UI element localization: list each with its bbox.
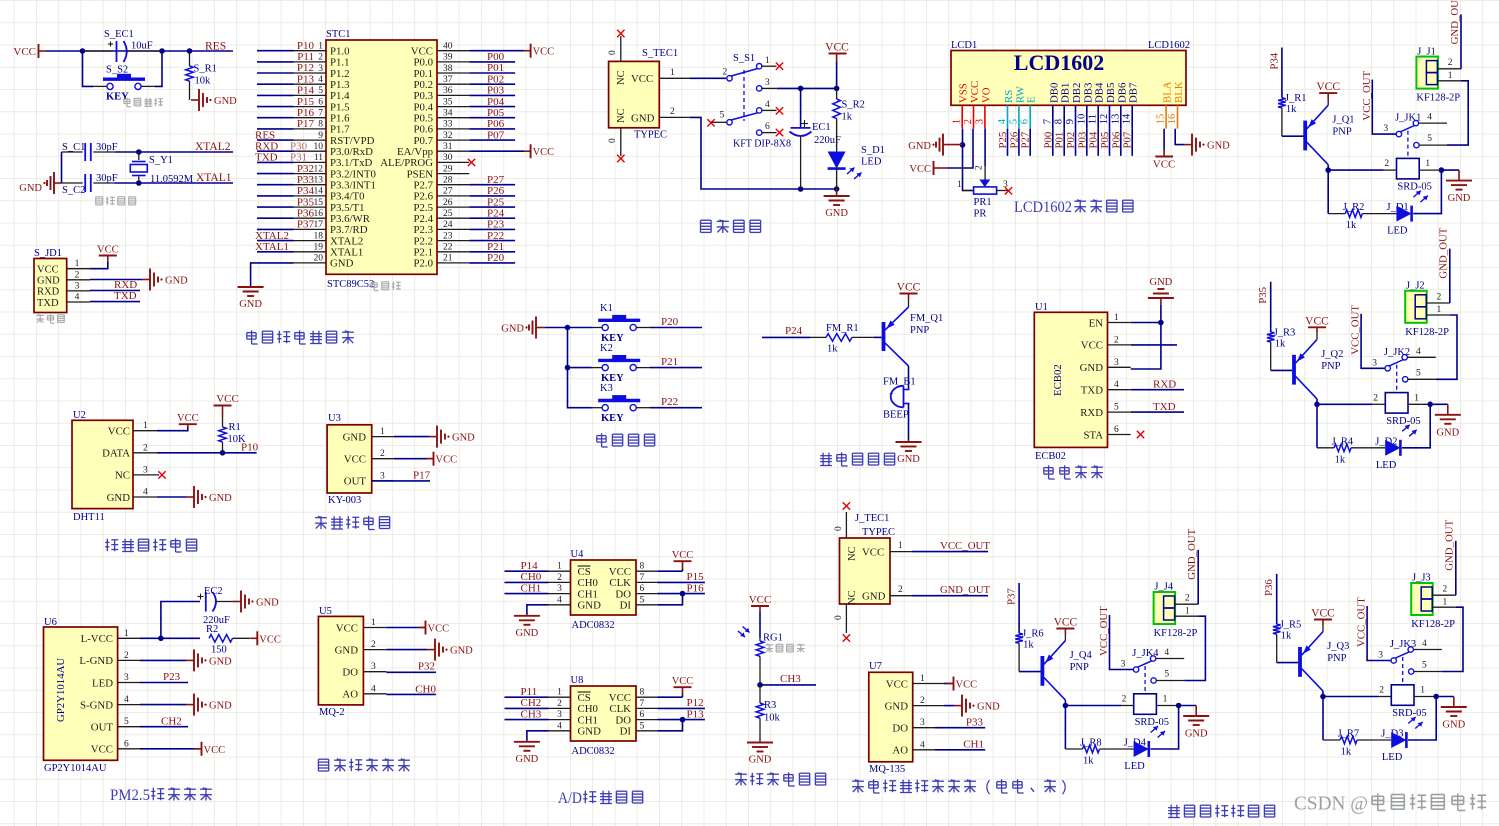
svg-text:DB3: DB3 (1082, 83, 1094, 103)
wire P20 net (469, 262, 515, 264)
svg-text:16: 16 (314, 209, 324, 219)
svg-text:6: 6 (1020, 119, 1031, 124)
wire LCD pin 14 (1131, 129, 1133, 156)
wire collector (1064, 700, 1066, 705)
junction (136, 180, 142, 186)
svg-text:VCC: VCC (37, 265, 59, 276)
svg-text:P26: P26 (487, 185, 505, 197)
svg-text:GND_OUT: GND_OUT (1438, 227, 1450, 278)
svg-text:1: 1 (1437, 305, 1442, 315)
ground (1184, 144, 1192, 146)
svg-text:P36: P36 (297, 207, 315, 219)
svg-text:0: 0 (608, 50, 618, 55)
switch S_S1 pole2 (727, 120, 732, 125)
svg-text:30: 30 (443, 153, 453, 163)
svg-text:P3.0/RxD: P3.0/RxD (330, 146, 373, 158)
wire LCD pin 9 (1075, 129, 1077, 156)
wire VCC to RG1 (759, 612, 761, 638)
svg-text:3: 3 (1114, 358, 1119, 368)
svg-text:PR: PR (974, 209, 987, 220)
wire LCD pin 8 (1063, 129, 1065, 156)
svg-text:STC1: STC1 (326, 29, 351, 40)
svg-text:OUT: OUT (344, 476, 367, 488)
svg-text:XTAL1: XTAL1 (196, 172, 232, 184)
pin 7 P1.6 (294, 117, 327, 119)
relay coil SRD-05 (1373, 403, 1386, 405)
wire P15 net (257, 106, 294, 108)
svg-text:KY-003: KY-003 (328, 495, 361, 506)
wire P26 net (469, 195, 515, 197)
svg-text:P02: P02 (1065, 132, 1077, 149)
svg-text:0: 0 (608, 138, 618, 143)
transistor FM_Q1 PNP (882, 322, 886, 351)
svg-text:3: 3 (557, 584, 562, 594)
svg-text:8: 8 (318, 120, 323, 130)
pin 1 VCC (659, 77, 690, 79)
svg-text:27: 27 (443, 187, 453, 197)
svg-text:4: 4 (920, 740, 925, 750)
svg-text:P16: P16 (687, 582, 705, 594)
annotation 按键复位 (126, 98, 128, 107)
svg-text:P01: P01 (487, 62, 504, 74)
svg-text:GND: GND (209, 701, 232, 712)
svg-text:1k: 1k (1275, 338, 1286, 349)
pin 27 P2.6 (437, 195, 469, 197)
wire VCC (944, 683, 954, 685)
svg-text:GND: GND (1080, 362, 1104, 374)
svg-text:1: 1 (143, 421, 148, 431)
wire GND pin20 (251, 263, 294, 287)
wire P20 net (650, 327, 702, 329)
pin 30 ALE/PROG (437, 161, 469, 163)
svg-text:3: 3 (75, 281, 80, 291)
svg-text:GND: GND (209, 656, 232, 667)
svg-text:DHT11: DHT11 (73, 512, 105, 523)
wire P02 net (469, 83, 515, 85)
power port VCC (BLA) (1163, 150, 1165, 157)
svg-text:BEEP: BEEP (883, 410, 909, 421)
junction (187, 48, 193, 54)
svg-text:J_R1: J_R1 (1285, 93, 1307, 104)
wire AO CH0 (386, 693, 436, 695)
caption 单片机最小系统 (251, 330, 253, 344)
svg-text:KF128-2P: KF128-2P (1411, 619, 1455, 630)
wire CH0 (505, 581, 549, 583)
svg-text:P1.4: P1.4 (330, 90, 350, 102)
svg-text:S_C2: S_C2 (62, 185, 85, 196)
pin2 GND_OUT (890, 595, 912, 597)
pin 17 P3.7/RD (294, 228, 327, 230)
svg-text:2: 2 (1448, 58, 1453, 68)
svg-text:4: 4 (371, 684, 376, 694)
svg-text:SRD-05: SRD-05 (1397, 182, 1431, 193)
svg-text:5: 5 (1427, 134, 1432, 144)
svg-text:9: 9 (1065, 119, 1076, 124)
pin1 VCC_OUT (890, 551, 912, 553)
ground (250, 286, 252, 288)
wire P21 net (650, 367, 702, 369)
wire XTAL1 to pin19 (257, 251, 294, 253)
ground (427, 649, 435, 651)
relay coil SRD-05 (1379, 696, 1392, 698)
svg-text:3: 3 (318, 64, 323, 74)
pin 16 P3.6/WR (294, 217, 327, 219)
transistor J_Q2 PNP (1292, 355, 1296, 385)
svg-text:P31: P31 (290, 152, 307, 164)
caption 空气质量检测模块（氨气、苯） (852, 780, 864, 782)
svg-text:VCC: VCC (609, 566, 631, 578)
svg-text:GP2Y1014AU: GP2Y1014AU (55, 658, 67, 722)
connector pin2 (1438, 68, 1461, 70)
caption 光照采集电路 (735, 773, 747, 775)
pushbutton S_S2 KEY (93, 85, 107, 87)
svg-text:1k: 1k (1341, 747, 1352, 758)
junction (158, 636, 164, 642)
wire VCC_OUT (1110, 615, 1134, 670)
svg-text:0: 0 (834, 526, 844, 531)
ground (954, 705, 962, 707)
svg-text:4: 4 (124, 695, 129, 705)
svg-text:MQ-135: MQ-135 (869, 764, 905, 775)
wire LCD pin 12 (1109, 129, 1111, 156)
svg-text:FM_B1: FM_B1 (883, 377, 916, 388)
svg-text:28: 28 (443, 176, 453, 186)
svg-text:OUT: OUT (91, 722, 114, 734)
svg-text:P1.6: P1.6 (330, 113, 350, 125)
svg-text:RXD: RXD (37, 287, 60, 298)
svg-text:4: 4 (765, 100, 770, 110)
svg-text:4: 4 (143, 488, 148, 498)
svg-text:K1: K1 (600, 303, 613, 314)
svg-text:CLK: CLK (609, 577, 631, 589)
pushbutton K3 KEY (592, 407, 603, 409)
wire P35 net (257, 206, 294, 208)
svg-text:U8: U8 (571, 675, 584, 686)
svg-text:GP2Y1014AU: GP2Y1014AU (44, 763, 107, 774)
wire LCD pin 10 (1086, 129, 1088, 156)
svg-text:P2.7: P2.7 (413, 180, 433, 192)
svg-text:2: 2 (975, 165, 985, 170)
svg-text:LCD1602: LCD1602 (1014, 199, 1072, 216)
wire S-GND (140, 704, 186, 706)
wire P16 (658, 593, 705, 595)
svg-text:1: 1 (920, 674, 925, 684)
svg-text:VCC: VCC (1311, 608, 1335, 620)
pushbutton K2 KEY (592, 367, 603, 369)
svg-text:A/D: A/D (558, 790, 582, 807)
svg-text:1: 1 (557, 688, 562, 698)
svg-text:VCC: VCC (909, 164, 931, 175)
svg-text:15: 15 (314, 198, 324, 208)
svg-text:P2.3: P2.3 (413, 224, 433, 236)
svg-text:1: 1 (318, 42, 323, 52)
wire pin5 to connector pin1 (1447, 81, 1468, 145)
wire VCC_OUT (1361, 314, 1385, 369)
svg-text:KFT DIP-8X8: KFT DIP-8X8 (733, 139, 791, 150)
svg-text:VCC: VCC (177, 413, 199, 424)
annotation 晶振电路 (96, 196, 103, 198)
svg-text:35: 35 (443, 97, 453, 107)
no-connect X (617, 30, 624, 37)
svg-text:P34: P34 (297, 185, 315, 197)
svg-text:VCC: VCC (969, 81, 981, 103)
no-connect X (843, 502, 850, 509)
svg-text:6: 6 (318, 97, 323, 107)
svg-text:VCC_OUT: VCC_OUT (1361, 70, 1373, 120)
no-connect X (776, 107, 783, 114)
svg-text:+: + (889, 390, 894, 399)
svg-text:10: 10 (314, 142, 324, 152)
svg-text:TXD: TXD (114, 290, 137, 302)
junction (159, 48, 165, 54)
svg-text:DB4: DB4 (1094, 82, 1106, 103)
connector pin1 (1433, 606, 1456, 608)
wire BLK to GND (1175, 129, 1184, 145)
svg-text:TXD: TXD (255, 152, 278, 164)
caption 烟雾检测模块 (318, 758, 328, 760)
svg-text:DB6: DB6 (1116, 82, 1128, 103)
svg-text:VCC_OUT: VCC_OUT (1350, 305, 1362, 355)
pin bottom NC (845, 604, 847, 633)
junction (1433, 694, 1439, 700)
svg-text:VO: VO (980, 87, 992, 103)
power port VCC (530, 144, 532, 158)
svg-text:CH3: CH3 (521, 708, 542, 720)
svg-text:J_R7: J_R7 (1338, 729, 1360, 740)
svg-text:GND: GND (516, 628, 539, 639)
svg-text:VCC: VCC (672, 550, 694, 561)
svg-text:2: 2 (557, 699, 562, 709)
svg-text:CH0: CH0 (521, 571, 542, 583)
svg-text:VCC: VCC (204, 745, 226, 756)
wire P37 net (257, 228, 294, 230)
svg-text:TXD: TXD (37, 298, 59, 309)
relay pin1 (1408, 403, 1430, 405)
caption 电源电路 (701, 219, 712, 221)
svg-text:VCC: VCC (97, 245, 119, 256)
wire to relay pin2 (1323, 696, 1379, 698)
svg-text:STC89C52: STC89C52 (327, 279, 374, 290)
wire TXD to pin11 (257, 161, 294, 163)
svg-text:6: 6 (1114, 425, 1119, 435)
pin 15 P3.5/T1 (294, 206, 327, 208)
svg-text:S_JD1: S_JD1 (34, 248, 62, 259)
svg-text:TXD: TXD (1081, 385, 1103, 397)
wire XTAL2 net (115, 151, 233, 153)
svg-text:GND: GND (256, 598, 279, 609)
no-connect X (158, 471, 165, 478)
svg-text:4: 4 (557, 595, 562, 605)
svg-text:3: 3 (557, 710, 562, 720)
svg-text:ALE/PROG: ALE/PROG (380, 157, 433, 169)
svg-text:GND: GND (631, 112, 655, 124)
wire GND (944, 705, 954, 707)
svg-text:17: 17 (314, 220, 324, 230)
svg-text:CSDN @: CSDN @ (1294, 792, 1368, 814)
wire EN (1131, 322, 1161, 324)
svg-text:P0.1: P0.1 (413, 68, 433, 80)
svg-text:P04: P04 (1088, 131, 1100, 148)
svg-text:15: 15 (1156, 114, 1167, 125)
svg-text:GND: GND (19, 183, 42, 194)
svg-text:3: 3 (380, 471, 385, 481)
svg-text:P20: P20 (487, 252, 505, 264)
svg-text:LCD1602: LCD1602 (1148, 40, 1190, 51)
wire VCC pin40 (469, 50, 524, 52)
svg-text:K3: K3 (600, 383, 613, 394)
svg-text:3: 3 (1383, 124, 1388, 134)
svg-text:VCC_OUT: VCC_OUT (940, 540, 990, 552)
svg-text:P25: P25 (997, 132, 1009, 149)
pin 37 P0.2 (437, 83, 469, 85)
svg-text:S_EC1: S_EC1 (104, 29, 134, 40)
svg-text:11: 11 (314, 153, 323, 163)
svg-text:RXD: RXD (1153, 379, 1176, 391)
svg-text:P24: P24 (487, 207, 505, 219)
wire GND_OUT (1460, 14, 1462, 68)
pin 21 P2.0 (437, 262, 469, 264)
resistor J_R1 1k (1278, 98, 1286, 108)
svg-text:5: 5 (1422, 661, 1427, 671)
svg-text:P2.0: P2.0 (413, 258, 433, 270)
wire BLA to VCC (1163, 129, 1165, 150)
wire pin2 to GND (90, 279, 142, 281)
no-connect X (707, 119, 714, 126)
svg-text:4: 4 (1164, 648, 1169, 658)
svg-text:VCC: VCC (862, 546, 884, 558)
svg-text:P13: P13 (687, 708, 705, 720)
power port VCC (179, 423, 197, 425)
svg-text:VCC: VCC (897, 282, 921, 294)
svg-text:7: 7 (318, 109, 323, 119)
svg-text:1: 1 (1163, 695, 1168, 705)
relay pin1 (1414, 696, 1436, 698)
svg-text:VCC: VCC (609, 692, 631, 704)
pin 26 P2.5 (437, 206, 469, 208)
wire GND_OUT (1449, 249, 1451, 303)
pin 9 RST/VPD (294, 139, 327, 141)
svg-text:XTAL2: XTAL2 (255, 230, 289, 242)
dashed link (1144, 666, 1146, 694)
pin 22 P2.1 (437, 251, 469, 253)
svg-text:4: 4 (318, 75, 323, 85)
svg-text:2: 2 (1185, 594, 1190, 604)
svg-text:L-GND: L-GND (79, 655, 113, 667)
svg-text:150: 150 (211, 645, 227, 656)
LED emission arrows (1413, 191, 1421, 198)
wire P03 net (469, 94, 515, 96)
wire pin5 to connector pin1 (1436, 315, 1457, 379)
svg-text:1k: 1k (1281, 631, 1292, 642)
svg-text:5: 5 (1164, 670, 1169, 680)
wire GND pin4 (527, 605, 549, 615)
svg-text:P27: P27 (1020, 131, 1032, 148)
svg-text:DO: DO (342, 667, 358, 679)
power port VCC (674, 560, 692, 562)
svg-text:GND: GND (214, 96, 237, 107)
pin 11 P3.1/TxD (294, 161, 327, 163)
svg-text:LED: LED (92, 677, 113, 689)
svg-text:P0.2: P0.2 (413, 79, 433, 91)
svg-text:AO: AO (342, 689, 358, 701)
svg-text:8: 8 (1054, 119, 1065, 124)
pin 29 PSEN (437, 173, 469, 175)
svg-text:2: 2 (963, 119, 974, 124)
svg-text:DB0: DB0 (1048, 83, 1060, 103)
pin 25 P2.4 (437, 217, 469, 219)
svg-text:LED: LED (861, 157, 882, 168)
svg-text:5: 5 (124, 717, 129, 727)
svg-text:37: 37 (443, 75, 453, 85)
svg-text:R2: R2 (206, 624, 218, 635)
wire VCC pin8 (658, 696, 683, 698)
resistor R2 150 (209, 635, 233, 643)
power port VCC (425, 621, 427, 635)
svg-text:GND_OUT: GND_OUT (940, 584, 990, 596)
pin 31 EA/Vpp (437, 150, 469, 152)
ground (1441, 169, 1459, 171)
svg-text:CH3: CH3 (780, 673, 801, 685)
svg-text:34: 34 (443, 109, 453, 119)
wire switch branch left (83, 51, 94, 86)
wire LED P23 (140, 682, 188, 684)
svg-text:38: 38 (443, 64, 453, 74)
svg-text:6: 6 (124, 739, 129, 749)
crystal S_Y1 11.0592M (138, 152, 140, 160)
LED emission arrows (1402, 425, 1410, 432)
svg-text:GND: GND (330, 258, 354, 270)
svg-text:10uF: 10uF (131, 41, 153, 52)
connector pin1 (1427, 314, 1450, 316)
svg-text:GND: GND (209, 493, 232, 504)
power port VCC (953, 677, 955, 691)
svg-text:5: 5 (1114, 403, 1119, 413)
power port VCC (201, 742, 203, 756)
svg-text:VCC: VCC (436, 455, 458, 466)
svg-text:TYPEC: TYPEC (862, 526, 895, 538)
svg-text:P01: P01 (1054, 132, 1066, 149)
svg-text:U2: U2 (73, 410, 86, 421)
svg-text:NC: NC (616, 108, 627, 123)
wire L-GND (140, 659, 186, 661)
svg-text:SRD-05: SRD-05 (1386, 416, 1420, 427)
svg-text:VCC: VCC (1316, 81, 1340, 93)
svg-text:2: 2 (1379, 686, 1384, 696)
wire XTAL1 net (115, 182, 233, 184)
wire LCD pin 5 (1018, 129, 1020, 156)
svg-text:DO: DO (892, 723, 908, 735)
dashed link (1407, 131, 1409, 159)
svg-text:CH0: CH0 (578, 703, 598, 715)
power port VCC (99, 255, 117, 257)
svg-text:R1: R1 (229, 422, 241, 433)
svg-text:VCC: VCC (533, 147, 555, 158)
ground (526, 741, 528, 742)
svg-text:J_TEC1: J_TEC1 (855, 513, 889, 524)
svg-text:P10: P10 (297, 40, 315, 52)
svg-text:GND: GND (578, 726, 602, 738)
capacitor EC1 220uF (800, 88, 802, 127)
svg-text:3: 3 (765, 78, 770, 88)
junction (834, 186, 840, 192)
svg-text:J_R3: J_R3 (1274, 327, 1296, 338)
svg-text:P2.5: P2.5 (413, 202, 433, 214)
transistor J_Q1 PNP (1303, 121, 1307, 151)
svg-text:P15: P15 (687, 571, 705, 583)
wire RXD->TXD (1131, 411, 1184, 413)
wire VCC pin8 (658, 570, 683, 572)
junction (757, 682, 763, 688)
